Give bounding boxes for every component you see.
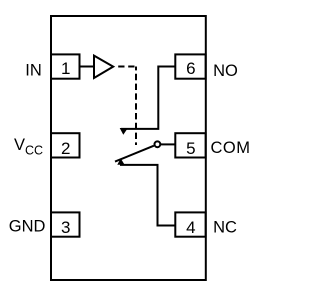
svg-text:IN: IN (25, 62, 42, 80)
svg-text:GND: GND (9, 218, 46, 236)
svg-text:VCC: VCC (14, 136, 43, 158)
svg-text:NO: NO (213, 62, 238, 80)
svg-text:3: 3 (61, 218, 70, 237)
svg-text:4: 4 (186, 218, 195, 237)
svg-text:2: 2 (61, 139, 70, 158)
svg-text:6: 6 (186, 59, 195, 78)
svg-text:5: 5 (186, 139, 195, 158)
svg-text:COM: COM (211, 139, 251, 157)
svg-text:1: 1 (61, 59, 70, 78)
svg-text:NC: NC (213, 219, 237, 237)
